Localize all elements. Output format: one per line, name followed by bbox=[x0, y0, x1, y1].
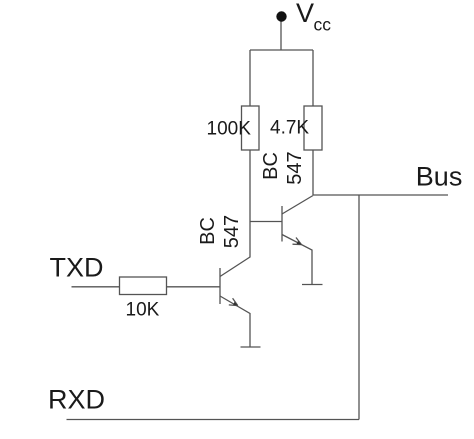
svg-text:BC: BC bbox=[260, 152, 282, 180]
svg-text:10K: 10K bbox=[126, 300, 160, 321]
svg-text:V: V bbox=[296, 0, 314, 28]
svg-text:547: 547 bbox=[221, 215, 243, 248]
svg-text:BC: BC bbox=[197, 217, 219, 245]
svg-text:4.7K: 4.7K bbox=[270, 118, 309, 139]
svg-text:cc: cc bbox=[314, 15, 332, 35]
svg-text:100K: 100K bbox=[207, 119, 252, 140]
svg-text:RXD: RXD bbox=[48, 385, 105, 415]
svg-text:547: 547 bbox=[284, 151, 306, 184]
svg-text:TXD: TXD bbox=[50, 253, 104, 283]
svg-text:Bus: Bus bbox=[416, 162, 463, 192]
